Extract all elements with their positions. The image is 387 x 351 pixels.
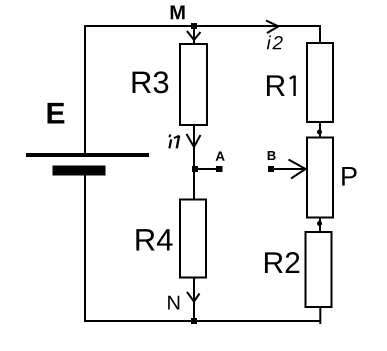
label N — [168, 296, 179, 310]
battery E bottom plate — [53, 166, 106, 176]
current arrow i1 — [187, 134, 201, 147]
wire left upper (from top-left corner down to battery) — [84, 25, 86, 155]
wire R3 to node A — [193, 125, 195, 169]
label R2 — [265, 252, 299, 273]
wire R2 to bottom rail — [319, 306, 321, 324]
node M junction — [191, 23, 197, 29]
node A terminal — [216, 166, 223, 172]
resistor R1 — [307, 43, 333, 122]
node B terminal — [268, 166, 274, 172]
label B — [268, 151, 276, 160]
node A junction — [192, 166, 198, 172]
wire node A to R4 — [193, 169, 195, 200]
potentiometer P body — [307, 138, 333, 218]
label R4 — [136, 229, 172, 250]
label R1 — [267, 75, 295, 96]
wire P to R2 — [319, 217, 321, 232]
wire R1 to P — [319, 122, 321, 138]
wire wiper B — [271, 168, 304, 170]
arrow into R3 — [187, 31, 201, 40]
battery E top plate — [26, 153, 149, 157]
wiper arrowhead into P — [289, 160, 306, 179]
arrow into node N — [187, 292, 200, 302]
wire bottom (N rail) — [84, 320, 321, 322]
resistor R2 — [306, 232, 332, 307]
label i1 — [169, 135, 180, 149]
label i2 — [267, 36, 283, 50]
label E — [48, 103, 65, 124]
label R3 — [133, 71, 169, 93]
wire top-right corner down to R1 — [319, 26, 321, 43]
label A — [216, 152, 225, 161]
current arrow i2 — [266, 21, 279, 34]
resistor R4 — [180, 200, 206, 278]
wire M to R3 — [193, 26, 195, 44]
junction dot R1-P — [317, 130, 322, 135]
label P — [342, 167, 356, 186]
wire top (M rail from left corner to right corner) — [84, 25, 321, 27]
wire left lower (battery to bottom-left corner) — [84, 175, 86, 322]
resistor R3 — [180, 44, 207, 125]
node N junction — [191, 318, 197, 324]
label M — [171, 5, 185, 19]
wire R4 to node N — [193, 277, 195, 322]
junction dot P-R2 — [317, 221, 322, 226]
wire node A stub — [195, 168, 217, 170]
